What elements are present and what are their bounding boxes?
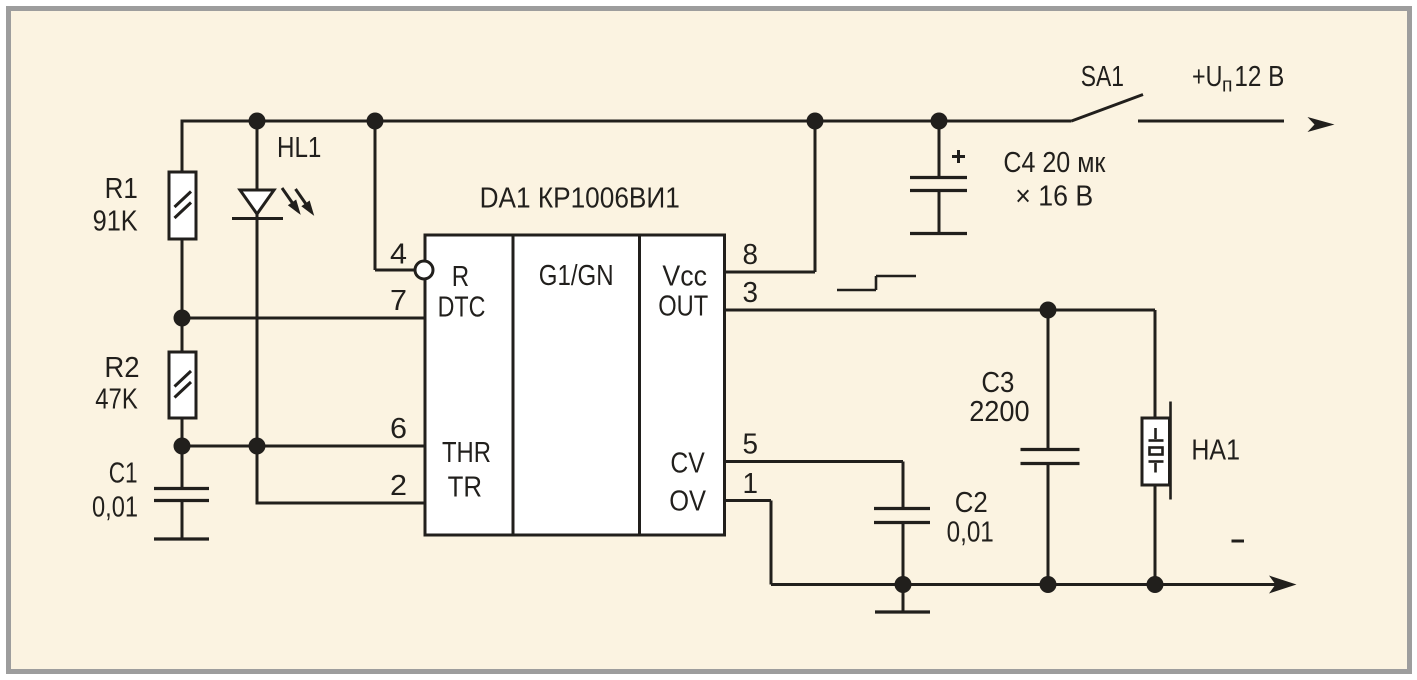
capacitor C1 xyxy=(154,489,209,540)
wire top rail left segment xyxy=(182,120,1072,123)
label C3 xyxy=(969,367,1029,428)
wire top rail right segment xyxy=(1138,120,1284,123)
switch SA1 lever xyxy=(1072,95,1144,122)
label +Un 12 V xyxy=(1192,61,1284,97)
svg-text:0,01: 0,01 xyxy=(92,492,138,524)
wire pin 4 branch vertical xyxy=(374,121,377,270)
wire pin 4 horizontal xyxy=(375,269,416,272)
pin number 4 xyxy=(390,239,758,503)
wire pin 3 OUT xyxy=(725,309,1156,312)
svg-text:HA1: HA1 xyxy=(1191,434,1240,466)
svg-text:12 В: 12 В xyxy=(1234,61,1284,93)
resistor R2 xyxy=(169,352,196,418)
svg-text:C2: C2 xyxy=(955,487,988,519)
label R2 xyxy=(95,352,139,416)
svg-text:0,01: 0,01 xyxy=(947,517,994,549)
wire pin 1 down to bottom rail xyxy=(770,501,773,585)
svg-text:п: п xyxy=(1222,75,1233,97)
wire OUT down to HA1 xyxy=(1154,310,1157,418)
svg-text:R: R xyxy=(452,261,469,293)
resistor R1 xyxy=(169,172,196,239)
svg-text:91K: 91K xyxy=(93,206,139,238)
svg-text:6: 6 xyxy=(390,413,407,445)
label C1 xyxy=(92,458,138,524)
svg-text:2: 2 xyxy=(390,470,407,502)
HL1 light arrows xyxy=(282,188,312,212)
wire HA1 bottom lead xyxy=(1154,485,1157,585)
svg-text:OV: OV xyxy=(669,486,706,518)
svg-text:7: 7 xyxy=(390,285,407,317)
arrow top right xyxy=(1308,117,1335,132)
wire C2 ground stub xyxy=(902,585,905,612)
wire C4 bottom lead xyxy=(938,191,941,233)
capacitor C4 polarized xyxy=(910,178,967,234)
svg-text:5: 5 xyxy=(743,429,759,461)
svg-text:4: 4 xyxy=(390,239,407,271)
svg-text:DA1 КР1006ВИ1: DA1 КР1006ВИ1 xyxy=(480,183,680,215)
wire CV down to C2 xyxy=(902,462,905,509)
wire THR node down to TR level xyxy=(256,446,259,503)
wire C1 top lead xyxy=(181,446,184,488)
wire C3 bottom lead xyxy=(1047,464,1050,585)
IC pin label R xyxy=(438,260,709,518)
pin 4 inversion circle xyxy=(415,261,433,279)
LED HL1 xyxy=(232,190,283,219)
IC DA1 body xyxy=(425,235,725,535)
wire R2 top lead xyxy=(181,318,184,352)
wire HL1 cathode down to node THR xyxy=(256,214,259,446)
svg-text:Vcc: Vcc xyxy=(662,261,707,293)
capacitor C2 xyxy=(874,509,930,613)
wire C2 bottom lead xyxy=(902,523,905,585)
svg-text:C3: C3 xyxy=(981,367,1014,399)
step waveform symbol xyxy=(837,276,916,290)
svg-text:C1: C1 xyxy=(109,458,138,490)
node OUT dot xyxy=(1040,302,1057,319)
node THR dots xyxy=(174,438,191,455)
svg-text:8: 8 xyxy=(743,239,759,271)
svg-text:47K: 47K xyxy=(95,384,138,416)
arrow bottom right xyxy=(1269,576,1297,594)
wire R1 to node DTC xyxy=(181,239,184,318)
wire R2 bottom lead to node THR xyxy=(181,418,184,446)
svg-text:R2: R2 xyxy=(104,352,139,384)
wire pin 5 CV xyxy=(725,460,904,463)
wire pin 7 DTC xyxy=(182,317,425,320)
wire bottom rail xyxy=(771,583,1285,586)
svg-text:2200: 2200 xyxy=(969,396,1029,428)
label C2 xyxy=(947,487,994,549)
svg-text:C4 20 мк: C4 20 мк xyxy=(1003,147,1105,179)
minus sign xyxy=(1232,540,1245,543)
wire pin 6 THR xyxy=(182,445,425,448)
svg-text:CV: CV xyxy=(670,447,705,479)
bottom rail dots xyxy=(895,576,912,593)
wire HL1 anode xyxy=(256,121,259,190)
svg-text:3: 3 xyxy=(743,277,759,309)
svg-text:DTC: DTC xyxy=(438,292,486,324)
svg-text:R1: R1 xyxy=(105,173,138,205)
svg-text:1: 1 xyxy=(743,468,759,500)
buzzer HA1 xyxy=(1142,418,1170,485)
svg-text:OUT: OUT xyxy=(658,291,708,323)
junction dots top rail xyxy=(249,113,266,130)
svg-text:THR: THR xyxy=(442,437,491,469)
wire pin 2 TR xyxy=(256,502,426,505)
wire C1 bottom lead xyxy=(181,501,184,539)
wire C3 top lead xyxy=(1047,310,1050,450)
svg-text:× 16 В: × 16 В xyxy=(1015,181,1093,213)
svg-text:+U: +U xyxy=(1192,61,1222,93)
wire C4 top lead xyxy=(938,121,941,177)
wire pin 1 OV horizontal xyxy=(725,499,772,502)
svg-text:SA1: SA1 xyxy=(1081,61,1124,93)
svg-text:G1/GN: G1/GN xyxy=(539,260,614,292)
node DTC dot xyxy=(174,310,191,327)
capacitor C3 xyxy=(1021,450,1080,464)
svg-text:HL1: HL1 xyxy=(277,132,321,164)
wire pin 8 horizontal xyxy=(725,271,816,274)
label R1 xyxy=(93,173,139,238)
wire pin 8 vertical to rail xyxy=(814,121,817,272)
C4 plus sign xyxy=(952,150,965,163)
svg-text:TR: TR xyxy=(448,472,482,504)
label C4 xyxy=(1003,147,1105,213)
wire R1 branch top xyxy=(181,120,184,173)
